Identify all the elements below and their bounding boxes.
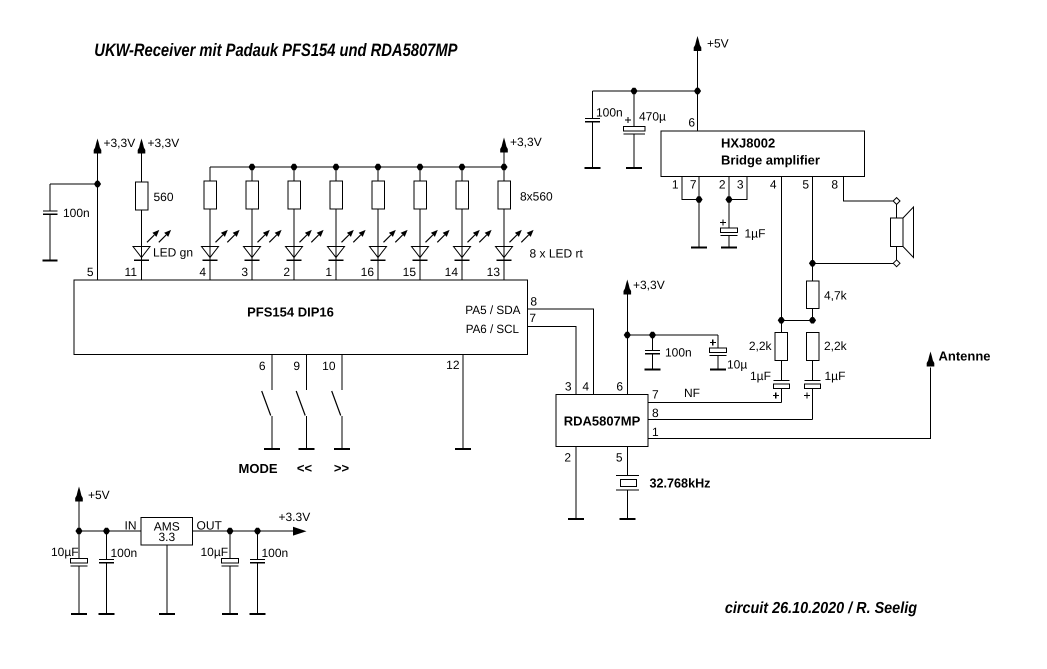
resistor 8x560 #8 xyxy=(498,181,511,209)
arrow +3.3V output xyxy=(293,527,307,536)
LED rt #7 (red LED) xyxy=(454,230,492,260)
junction rail x=79 xyxy=(75,528,82,534)
label 470u xyxy=(639,110,666,124)
svg-text:11: 11 xyxy=(125,265,138,279)
svg-text:6: 6 xyxy=(688,116,695,130)
capacitor 100n (amplifier) xyxy=(585,119,600,122)
wire +5V to HXJ8002 pin6 xyxy=(697,51,699,131)
svg-text:10µF: 10µF xyxy=(51,545,79,559)
LED rt #6 (red LED) xyxy=(412,230,450,260)
HXJ pin7 terminal bar xyxy=(691,247,707,249)
pin label 4 (RDA) xyxy=(582,380,589,394)
bus wire +3,3V to resistor array xyxy=(210,166,504,168)
svg-text:+5V: +5V xyxy=(88,488,110,502)
switch >> terminal bar xyxy=(334,448,350,450)
junction bus x=420 xyxy=(416,164,423,170)
wire 10uF output to ground xyxy=(229,566,231,614)
wire 5V/3.3V rail xyxy=(79,530,293,532)
svg-text:+3,3V: +3,3V xyxy=(104,136,136,150)
wire 4,7k to junction xyxy=(812,309,814,321)
capacitor 470u (electrolytic) xyxy=(623,127,645,135)
svg-text:470µ: 470µ xyxy=(639,110,666,124)
svg-text:UKW-Receiver mit Padauk PFS154: UKW-Receiver mit Padauk PFS154 und RDA58… xyxy=(94,40,458,60)
junction pin2/pin3 xyxy=(725,196,732,202)
resistor 8x560 #7 xyxy=(456,181,469,209)
label 100n (RDA) xyxy=(665,346,692,360)
svg-text:14: 14 xyxy=(445,265,459,279)
label 560 xyxy=(154,190,174,204)
label 3.3 xyxy=(158,530,175,544)
IC PFS154 DIP16 body xyxy=(74,280,528,355)
wire speaker + stub xyxy=(896,204,898,218)
wire AMS ground pin xyxy=(166,545,168,614)
wire 470u top lead xyxy=(633,91,635,127)
wire 100n RDA bottom lead xyxy=(652,354,654,370)
wire resistor 4 to LED 4 to chip xyxy=(335,209,337,280)
wire divider junctions xyxy=(781,319,812,321)
label RDA5807MP xyxy=(564,414,641,429)
capacitor 1uF left (electrolytic) xyxy=(773,381,789,389)
label 100n input xyxy=(111,546,138,560)
100n RDA terminal bar xyxy=(645,369,661,371)
voltage regulator AMS 3.3 body xyxy=(141,518,193,546)
svg-text:1µF: 1µF xyxy=(750,369,771,383)
wire RDA pin1 to antenna xyxy=(648,368,931,439)
LED rt #1 (red LED) xyxy=(202,230,240,260)
svg-text:12: 12 xyxy=(446,358,460,372)
pin12 terminal bar xyxy=(455,448,471,450)
pin label 1 (HXJ8002) xyxy=(672,178,679,192)
wire speaker - to pin5 xyxy=(813,262,894,264)
label HXJ8002 xyxy=(721,136,775,151)
junction rail x=230 xyxy=(226,528,233,534)
svg-text:7: 7 xyxy=(652,388,659,402)
antenna arrow xyxy=(927,352,935,367)
svg-text:Antenne: Antenne xyxy=(939,349,991,364)
svg-text:6: 6 xyxy=(259,359,266,373)
wire RDA decoupling branch xyxy=(627,334,718,336)
label OUT xyxy=(197,519,223,533)
capacitor 1uF right (electrolytic) xyxy=(805,381,821,389)
wire bus to resistor 4 xyxy=(335,167,337,181)
wire to C 10uF output xyxy=(229,531,231,559)
plus sign 470u xyxy=(625,117,631,123)
svg-text:+3,3V: +3,3V xyxy=(633,278,665,292)
svg-text:OUT: OUT xyxy=(197,519,223,533)
label Antenne xyxy=(939,349,991,364)
svg-text:100n: 100n xyxy=(262,546,289,560)
wire bus to resistor 1 xyxy=(209,167,211,181)
resistor 2,2k left xyxy=(775,333,788,361)
wire 2,2k left to 1uF left xyxy=(780,361,782,381)
svg-text:15: 15 xyxy=(403,265,417,279)
pin label 6 (HXJ8002) xyxy=(688,116,695,130)
wire HXJ pin3 to pin2 xyxy=(729,177,747,200)
svg-text:+3,3V: +3,3V xyxy=(148,136,180,150)
svg-text:8x560: 8x560 xyxy=(520,190,553,204)
wire HXJ pin7 to ground xyxy=(698,177,700,248)
label LED gn xyxy=(153,246,193,260)
svg-text:circuit 26.10.2020 / R. Seelig: circuit 26.10.2020 / R. Seelig xyxy=(725,600,917,617)
junction pin5/speaker xyxy=(809,260,816,266)
label PA5 / SDA xyxy=(465,303,520,317)
svg-text:3: 3 xyxy=(737,178,744,192)
10uF output terminal bar xyxy=(222,613,238,615)
wire 100n output to ground xyxy=(257,563,259,614)
wire resistor 5 to LED 5 to chip xyxy=(377,209,379,280)
resistor 8x560 #1 xyxy=(204,181,217,209)
svg-text:>>: >> xyxy=(334,461,350,476)
wire pin6 to switch xyxy=(271,355,273,391)
wire RDA pin5 to crystal xyxy=(626,447,628,476)
svg-text:LED gn: LED gn xyxy=(153,246,193,260)
credit text xyxy=(725,600,917,617)
resistor 8x560 #2 xyxy=(246,181,259,209)
label +3,3V (pin5) xyxy=(104,136,136,150)
svg-text:4: 4 xyxy=(770,178,777,192)
pin label 8 (RDA) xyxy=(652,406,659,420)
plus sign 1uF left xyxy=(773,393,779,399)
label 10uF input xyxy=(51,545,79,559)
wire SCL pin7 to RDA pin3 xyxy=(528,327,577,395)
svg-text:100n: 100n xyxy=(63,206,90,220)
label 100n (C1) xyxy=(63,206,90,220)
pin label 2 (HXJ8002) xyxy=(719,178,726,192)
wire HXJ pin8 to speaker + xyxy=(844,177,894,202)
wire 100n input to ground xyxy=(106,563,108,614)
svg-text:RDA5807MP: RDA5807MP xyxy=(564,414,641,429)
label IN xyxy=(125,519,137,533)
crystal terminal bar xyxy=(619,518,635,520)
label +3,3V (RDA) xyxy=(633,278,665,292)
junction bus x=294 xyxy=(290,164,297,170)
svg-text:1µF: 1µF xyxy=(825,369,846,383)
label 100n (amplifier) xyxy=(596,106,623,120)
label 1uF left xyxy=(750,369,771,383)
svg-text:560: 560 xyxy=(154,190,174,204)
svg-text:4: 4 xyxy=(199,265,206,279)
LED rt #3 (red LED) xyxy=(286,230,324,260)
wire switch << to terminal xyxy=(306,416,308,449)
svg-text:1: 1 xyxy=(672,178,679,192)
label AMS xyxy=(154,520,180,534)
label Bridge amplifier xyxy=(721,153,820,168)
100n amp terminal bar xyxy=(585,167,601,169)
svg-text:3: 3 xyxy=(565,380,572,394)
label 8x560 xyxy=(520,190,553,204)
wire NF to RDA pin7 xyxy=(648,402,781,404)
label 2,2k left xyxy=(749,339,773,353)
wire 10u bottom lead xyxy=(717,356,719,370)
wire resistor 8 to LED 8 to chip xyxy=(503,209,505,280)
100n output terminal bar xyxy=(250,613,266,615)
svg-text:1: 1 xyxy=(652,425,659,439)
wire crystal to ground xyxy=(626,490,628,519)
wire +5V to rail xyxy=(78,502,80,532)
IC RDA5807MP body xyxy=(556,395,648,447)
capacitor 100n input xyxy=(99,560,114,563)
capacitor 100n output xyxy=(250,560,265,563)
pin label 8 (PFS154) xyxy=(530,295,537,309)
label 8 x LED rt xyxy=(530,247,584,261)
title text xyxy=(94,40,458,60)
pin label 13 xyxy=(487,265,501,279)
speaker terminal + (open) xyxy=(893,198,900,205)
resistor 8x560 #6 xyxy=(414,181,427,209)
svg-text:4,7k: 4,7k xyxy=(824,289,848,303)
capacitor 100n (RDA) xyxy=(645,351,660,354)
wire HXJ pin5 down xyxy=(812,177,814,282)
label NF xyxy=(684,386,700,400)
label PFS154 DIP16 xyxy=(247,305,334,320)
label 1uF right xyxy=(825,369,846,383)
capacitor 10u (electrolytic) xyxy=(710,348,727,356)
label 10u xyxy=(727,358,747,372)
label 10uF output xyxy=(201,545,229,559)
svg-text:3: 3 xyxy=(241,265,248,279)
junction pin4/divider xyxy=(778,317,785,323)
speaker terminal - (open) xyxy=(893,260,900,267)
pin label 5 xyxy=(87,265,94,279)
label << xyxy=(297,461,313,476)
wire pin12 to ground stub xyxy=(462,355,464,450)
svg-text:32.768kHz: 32.768kHz xyxy=(650,476,711,491)
svg-text:3.3: 3.3 xyxy=(158,530,175,544)
resistor R 560 xyxy=(135,182,148,210)
wire resistor 3 to LED 3 to chip xyxy=(293,209,295,280)
wire to 2,2k left xyxy=(780,320,782,332)
svg-text:Bridge amplifier: Bridge amplifier xyxy=(721,153,820,168)
wire speaker - stub xyxy=(896,247,898,260)
svg-text:16: 16 xyxy=(361,265,375,279)
AMS ground terminal bar xyxy=(159,613,175,615)
wire pin9 to switch xyxy=(306,355,308,391)
wire bus to resistor 8 xyxy=(503,167,505,181)
svg-text:8 x LED rt: 8 x LED rt xyxy=(530,247,584,261)
junction bus x=504 xyxy=(500,164,507,170)
wire R1 to pin11 through LED xyxy=(141,210,143,280)
svg-text:IN: IN xyxy=(125,519,137,533)
wire arrow to R1 xyxy=(141,154,143,183)
power +3,3V arrow (RDA) xyxy=(624,280,632,295)
pin label 5 (HXJ8002) xyxy=(802,178,809,192)
plus sign 10u xyxy=(710,340,716,346)
label 4,7k xyxy=(824,289,848,303)
svg-text:PFS154 DIP16: PFS154 DIP16 xyxy=(247,305,334,320)
resistor 8x560 #4 xyxy=(330,181,343,209)
svg-text:6: 6 xyxy=(616,380,623,394)
wire SDA pin8 to RDA pin4 xyxy=(528,309,594,395)
wire resistor 2 to LED 2 to chip xyxy=(251,209,253,280)
wire bus to resistor 7 xyxy=(461,167,463,181)
pin label 8 (HXJ8002) xyxy=(831,178,838,192)
svg-text:7: 7 xyxy=(529,311,536,325)
label MODE xyxy=(239,461,278,476)
pin label 7 (HXJ8002) xyxy=(690,178,697,192)
LED rt #8 (red LED) xyxy=(496,230,534,260)
svg-text:9: 9 xyxy=(293,359,300,373)
resistor 8x560 #5 xyxy=(372,181,385,209)
wire 10u top lead xyxy=(717,335,719,348)
RDA pin2 terminal bar xyxy=(568,518,584,520)
LED rt #2 (red LED) xyxy=(244,230,282,260)
label >> xyxy=(334,461,350,476)
svg-text:8: 8 xyxy=(652,406,659,420)
pin label 14 xyxy=(445,265,459,279)
power +3,3V arrow (LED gn) xyxy=(138,139,146,154)
capacitor C1 100n xyxy=(43,211,58,214)
10uF input terminal bar xyxy=(71,613,87,615)
svg-text:10µ: 10µ xyxy=(727,358,747,372)
wire bus to resistor 2 xyxy=(251,167,253,181)
junction 100n RDA xyxy=(649,332,656,338)
label 32.768kHz xyxy=(650,476,711,491)
wire 1uF right down xyxy=(812,389,814,420)
junction bus x=336 xyxy=(332,164,339,170)
crystal 32.768kHz xyxy=(616,476,639,491)
wire to C 10uF input xyxy=(78,531,80,559)
svg-text:2,2k: 2,2k xyxy=(749,339,773,353)
pin label 10 (PFS154 bottom) xyxy=(322,359,336,373)
wire bus to resistor 6 xyxy=(419,167,421,181)
svg-text:MODE: MODE xyxy=(239,461,278,476)
wire 100n amp bottom lead xyxy=(592,122,594,168)
switch MODE terminal bar xyxy=(264,448,280,450)
junction 470u xyxy=(630,88,637,94)
wire 100n RDA top lead xyxy=(652,335,654,351)
1uF bypass terminal bar xyxy=(721,247,737,249)
resistor 8x560 #3 xyxy=(288,181,301,209)
wire 10uF input to ground xyxy=(78,566,80,614)
svg-text:<<: << xyxy=(297,461,313,476)
svg-text:8: 8 xyxy=(831,178,838,192)
pin label 1 (RDA) xyxy=(652,425,659,439)
svg-text:+5V: +5V xyxy=(707,37,729,51)
svg-text:1: 1 xyxy=(325,265,332,279)
pin label 6 (PFS154 bottom) xyxy=(259,359,266,373)
svg-text:2: 2 xyxy=(564,451,571,465)
wire +3,3V to RDA pin6 xyxy=(626,295,628,395)
10u terminal bar xyxy=(710,369,726,371)
wire to C 100n output xyxy=(257,531,259,560)
LED gn (green LED) xyxy=(133,230,171,260)
pin label 9 (PFS154 bottom) xyxy=(293,359,300,373)
svg-text:4: 4 xyxy=(582,380,589,394)
wire decoupling branch xyxy=(593,90,698,92)
wire resistor 6 to LED 6 to chip xyxy=(419,209,421,280)
junction bus x=378 xyxy=(374,164,381,170)
wire 2,2k right to 1uF right xyxy=(812,361,814,381)
switch >> blade xyxy=(332,391,341,416)
wire to C1 xyxy=(50,183,98,185)
wire to C 100n input xyxy=(106,531,108,560)
svg-text:+3,3V: +3,3V xyxy=(510,135,542,149)
pin label 16 xyxy=(361,265,375,279)
IC HXJ8002 body xyxy=(661,131,865,177)
capacitor 10uF output (electrolytic) xyxy=(222,559,239,567)
capacitor 10uF input (electrolytic) xyxy=(71,559,88,567)
label +3,3V (LED array) xyxy=(510,135,542,149)
pin label 1 xyxy=(325,265,332,279)
junction bus x=462 xyxy=(458,164,465,170)
470u terminal bar xyxy=(626,167,642,169)
pin label 11 xyxy=(125,265,138,279)
wire stub xyxy=(812,332,814,334)
wire pin5 vertical xyxy=(97,154,99,281)
label +5V (regulator) xyxy=(88,488,110,502)
svg-text:NF: NF xyxy=(684,386,700,400)
wire 100n amp top lead xyxy=(592,91,594,119)
svg-text:HXJ8002: HXJ8002 xyxy=(721,136,775,151)
wire resistor 7 to LED 7 to chip xyxy=(461,209,463,280)
svg-text:PA5 / SDA: PA5 / SDA xyxy=(465,303,520,317)
switch MODE blade xyxy=(262,391,271,416)
junction pin5/C1 xyxy=(94,181,101,187)
100n input terminal bar xyxy=(99,613,115,615)
junction +5V/decoupling xyxy=(694,88,701,94)
svg-text:2: 2 xyxy=(283,265,290,279)
pin label 4 (HXJ8002) xyxy=(770,178,777,192)
junction bus x=252 xyxy=(248,164,255,170)
LED rt #5 (red LED) xyxy=(370,230,408,260)
plus sign 1uF right xyxy=(804,393,810,399)
wire bus to resistor 5 xyxy=(377,167,379,181)
switch << terminal bar xyxy=(299,448,315,450)
LED rt #4 (red LED) xyxy=(328,230,366,260)
label 2,2k right xyxy=(824,339,848,353)
label +5V (amplifier) xyxy=(707,37,729,51)
wire HXJ pin4 down xyxy=(780,177,782,321)
junction rail x=257.5 xyxy=(254,528,261,534)
pin label 3 (HXJ8002) xyxy=(737,178,744,192)
wire HXJ pin1 to pin7 xyxy=(682,177,699,200)
junction pin1/pin7 xyxy=(695,196,702,202)
wire switch MODE to terminal xyxy=(271,416,273,449)
label 1uF bypass xyxy=(745,227,766,241)
svg-text:2: 2 xyxy=(719,178,726,192)
pin label 12 xyxy=(446,358,460,372)
wire 1uF left down xyxy=(780,389,782,403)
svg-text:100n: 100n xyxy=(665,346,692,360)
pin label 5 (RDA) xyxy=(616,451,623,465)
wire C1 bottom lead xyxy=(49,214,51,260)
plus sign 1uF bypass xyxy=(720,220,726,226)
wire arrow to bus xyxy=(503,153,505,168)
junction rail x=106.5 xyxy=(103,528,110,534)
svg-text:5: 5 xyxy=(87,265,94,279)
pin label 7 (PFS154) xyxy=(529,311,536,325)
svg-text:+3.3V: +3.3V xyxy=(279,510,311,524)
pin label 15 xyxy=(403,265,417,279)
svg-text:7: 7 xyxy=(690,178,697,192)
junction pin5/divider xyxy=(809,317,816,323)
svg-text:8: 8 xyxy=(530,295,537,309)
pin label 6 (RDA) xyxy=(616,380,623,394)
svg-text:5: 5 xyxy=(802,178,809,192)
label PA6 / SCL xyxy=(466,322,520,336)
resistor 2,2k right xyxy=(806,333,819,361)
pin label 2 (RDA) xyxy=(564,451,571,465)
power +3,3V arrow (LED array) xyxy=(500,138,508,153)
wire 470u bottom lead xyxy=(633,134,635,168)
resistor 4,7k xyxy=(806,281,819,309)
pin label 3 xyxy=(241,265,248,279)
svg-text:10: 10 xyxy=(322,359,336,373)
power +3,3V arrow (pin5 rail) xyxy=(94,139,102,154)
switch << blade xyxy=(296,391,305,416)
wire switch >> to terminal xyxy=(341,416,343,449)
svg-text:1µF: 1µF xyxy=(745,227,766,241)
